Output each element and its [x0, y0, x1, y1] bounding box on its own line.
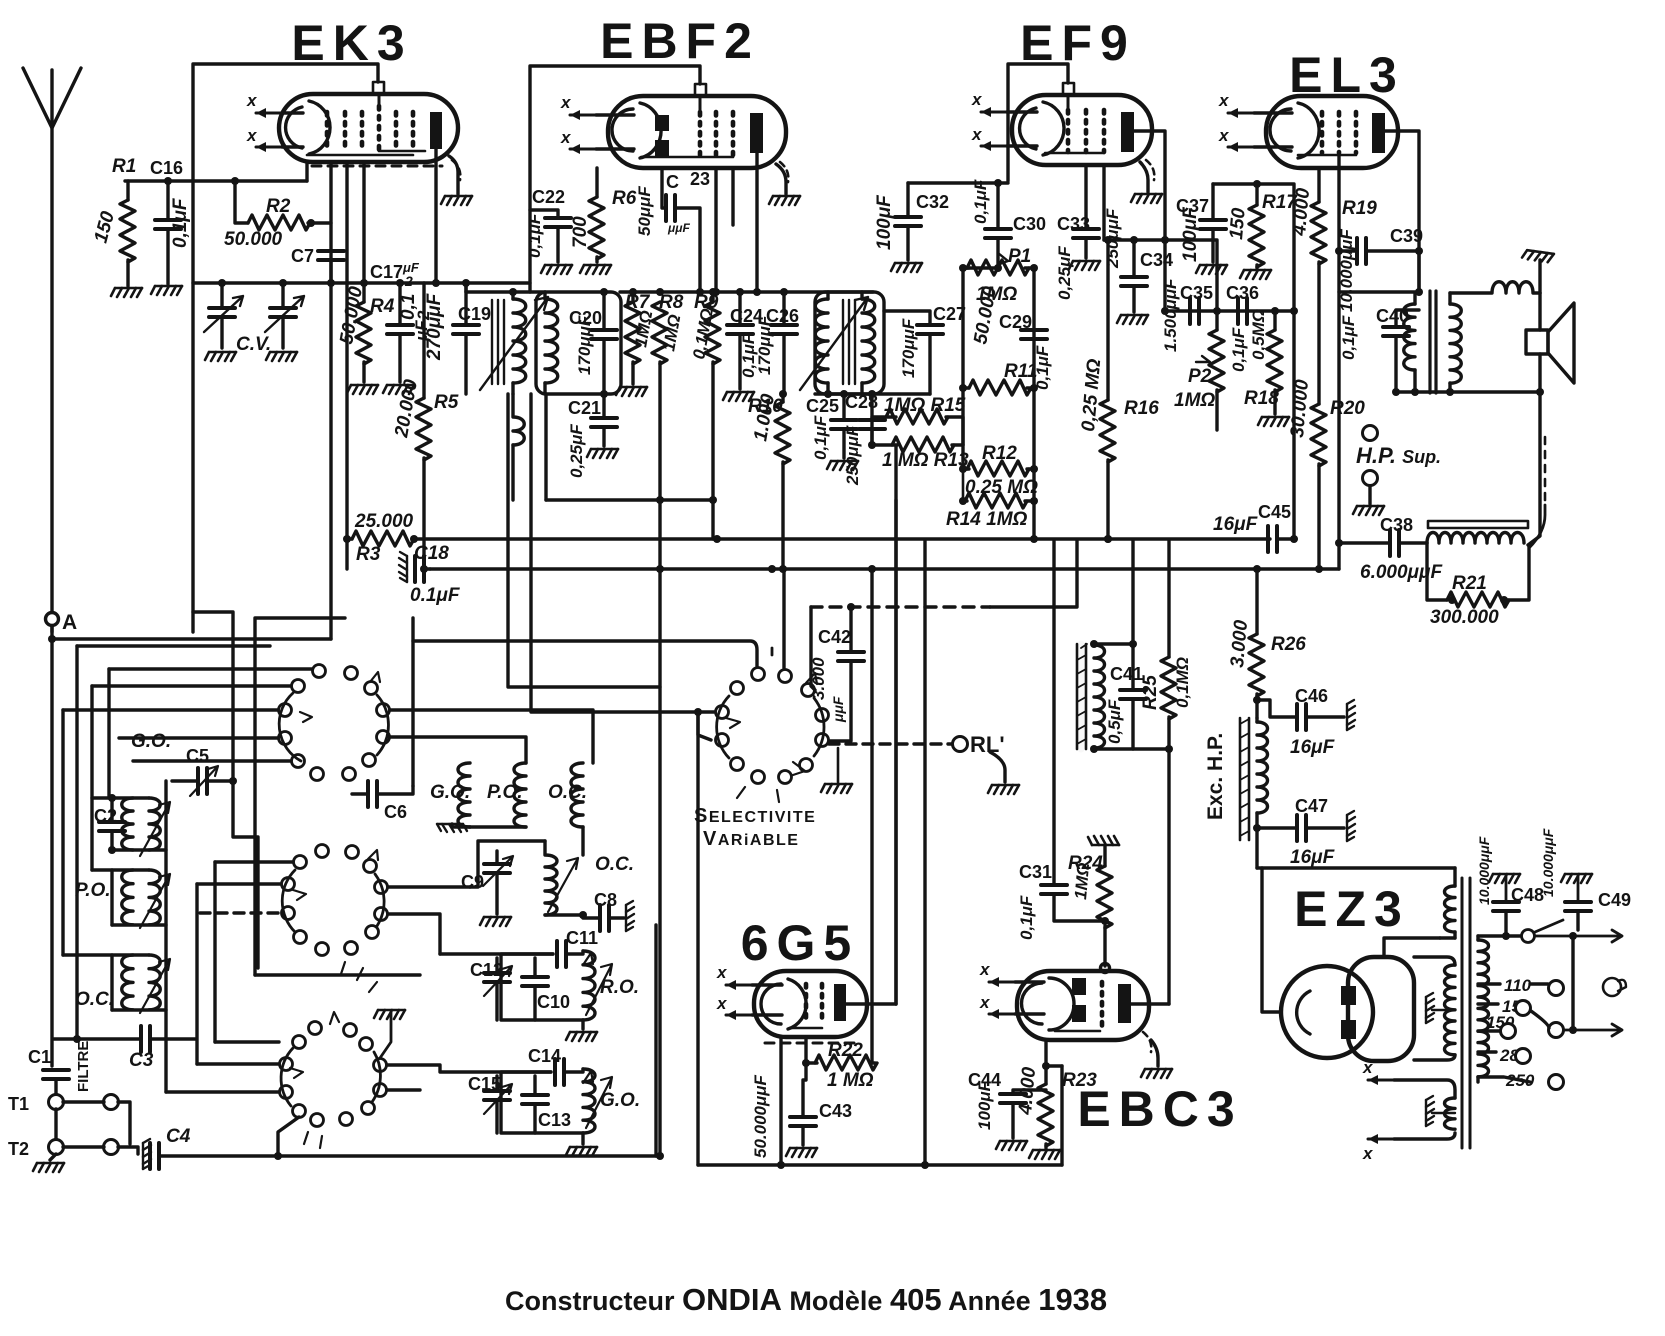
core lines	[492, 300, 504, 384]
wire grid bus y292	[620, 290, 873, 293]
osc coil below	[513, 394, 524, 445]
svg-text:x: x	[971, 90, 983, 109]
svg-text:C27: C27	[933, 304, 966, 324]
wire wafer1 right feeds	[390, 710, 593, 763]
wire HT bus 2	[430, 567, 1339, 570]
svg-text:O.C.: O.C.	[548, 782, 587, 803]
X arrows filament	[1368, 1075, 1394, 1085]
svg-text:C11: C11	[566, 928, 598, 948]
wire anode rail down	[1417, 251, 1420, 290]
svg-text:6.000μμF: 6.000μμF	[1360, 562, 1443, 583]
tuning arrow	[480, 297, 548, 390]
ground right of EK3	[449, 156, 458, 194]
svg-text:P2: P2	[1188, 366, 1212, 387]
HV winding top	[1445, 886, 1456, 932]
wire EZ3 anodes	[1384, 938, 1440, 957]
svg-text:25.000: 25.000	[354, 511, 414, 532]
svg-text:0,25μF: 0,25μF	[567, 424, 586, 478]
svg-text:R20: R20	[1330, 398, 1365, 419]
wire EF9 top cap	[1008, 64, 1068, 181]
wire rail x925	[923, 541, 926, 1165]
wire input line	[125, 179, 307, 182]
ground below EF9	[1140, 162, 1148, 192]
coil R.O.	[583, 951, 595, 1020]
svg-text:C32: C32	[916, 192, 949, 212]
svg-text:R.O.: R.O.	[600, 977, 639, 998]
anode rod	[430, 112, 442, 149]
svg-text:R2: R2	[266, 196, 291, 217]
svg-text:R14 1MΩ: R14 1MΩ	[946, 509, 1028, 530]
coil O.C. tuned	[545, 841, 557, 915]
filament winding bottom	[1445, 1098, 1456, 1129]
svg-text:C43: C43	[819, 1101, 852, 1121]
choke C41	[1078, 644, 1085, 749]
wire drop to selectivity	[782, 572, 785, 668]
svg-text:T2: T2	[8, 1139, 29, 1159]
svg-text:50.000μμF: 50.000μμF	[751, 1075, 770, 1158]
wire AVC y500	[546, 498, 713, 501]
wire wafer1 left feeds	[109, 667, 312, 670]
ground right of EBF2	[776, 164, 786, 194]
svg-text:x: x	[560, 93, 572, 112]
wire EL3 g2 drop	[1337, 153, 1340, 569]
wire EK3 box rail	[193, 612, 233, 781]
svg-text:G.O.: G.O.	[131, 731, 171, 752]
svg-text:C5: C5	[186, 746, 209, 766]
coil G.O.	[583, 1069, 595, 1133]
svg-text:P.O.: P.O.	[75, 880, 111, 901]
wire grid3 drop	[362, 162, 365, 283]
box	[501, 1072, 583, 1133]
svg-text:SELECTIVITE: SELECTIVITE	[694, 805, 816, 827]
svg-text:0,1μF: 0,1μF	[811, 415, 830, 460]
svg-text:x: x	[979, 993, 991, 1012]
svg-text:x: x	[246, 91, 258, 110]
wire 6G5 anode	[846, 1002, 896, 1005]
wire antenna down	[50, 626, 53, 1066]
svg-text:μμF: μμF	[830, 696, 846, 723]
wire EL3 anode to transformer	[1385, 131, 1419, 290]
wire EK3 top cap to left rail	[193, 64, 378, 632]
svg-text:Exc. H.P.: Exc. H.P.	[1204, 733, 1227, 820]
svg-text:C10: C10	[537, 992, 570, 1012]
wire grid2 drop	[345, 162, 348, 569]
svg-text:C21: C21	[568, 398, 601, 418]
svg-text:C4: C4	[166, 1126, 191, 1147]
svg-text:R1: R1	[112, 156, 136, 177]
core	[1462, 878, 1470, 1148]
capacitor 0,1uF (on C17 line)	[398, 283, 401, 325]
svg-text:C34: C34	[1140, 250, 1173, 270]
svg-text:C36: C36	[1226, 283, 1259, 303]
wire osc grid drop	[329, 260, 332, 639]
svg-text:170μμF: 170μμF	[755, 315, 774, 375]
ground right of EBC3	[1151, 1040, 1158, 1066]
svg-text:C1: C1	[28, 1047, 51, 1067]
svg-text:10.000μμF: 10.000μμF	[1540, 828, 1556, 897]
svg-text:10.000μμF: 10.000μμF	[1337, 229, 1356, 312]
svg-text:x: x	[1362, 1058, 1374, 1077]
shield dashes	[312, 165, 442, 168]
ground under selectivity	[828, 741, 830, 778]
svg-text:C25: C25	[806, 396, 839, 416]
svg-text:270μμF: 270μμF	[424, 292, 445, 361]
svg-text:0,1μF: 0,1μF	[525, 213, 544, 258]
svg-text:3.000: 3.000	[809, 657, 828, 700]
wire band switch to selectivity	[413, 641, 757, 666]
svg-text:1.500μμF: 1.500μμF	[1161, 278, 1180, 352]
wire EBF2 top cap left	[530, 66, 700, 292]
wire right box edge	[654, 925, 657, 1156]
wire speaker return	[1528, 392, 1540, 545]
svg-text:G.O.: G.O.	[600, 1090, 640, 1111]
capacitor 0,5uF	[1131, 541, 1134, 690]
svg-text:C38: C38	[1380, 515, 1413, 535]
svg-text:C17: C17	[370, 262, 403, 282]
svg-text:x: x	[1218, 126, 1230, 145]
switch mains	[1522, 930, 1535, 943]
svg-text:C19: C19	[458, 304, 491, 324]
svg-text:O.C.: O.C.	[595, 854, 634, 875]
wire grid1 drop	[329, 162, 332, 283]
wire filter line	[1257, 866, 1455, 869]
svg-text:C31: C31	[1019, 862, 1052, 882]
switch box outline	[255, 618, 345, 975]
wire EBF2 anode drop	[755, 153, 758, 292]
svg-text:R3: R3	[356, 544, 381, 565]
svg-text:RL': RL'	[970, 732, 1005, 757]
ground top right	[1538, 260, 1541, 293]
svg-text:O.C.: O.C.	[75, 989, 114, 1010]
wire wafer3 to bus	[278, 1117, 299, 1156]
svg-text:0,1μF: 0,1μF	[971, 179, 990, 224]
antenna	[23, 68, 81, 128]
wire 6G5 cathode	[779, 1037, 782, 1165]
svg-text:300.000: 300.000	[1430, 607, 1499, 628]
output transformer	[1404, 291, 1462, 393]
svg-text:C13: C13	[538, 1110, 571, 1130]
wire screen line EL3	[1213, 184, 1294, 539]
wire wafer3 left feeds	[215, 1040, 279, 1043]
svg-text:x: x	[716, 994, 728, 1013]
node A	[46, 613, 59, 626]
switch arm taps	[1531, 1011, 1549, 1028]
svg-text:R4: R4	[370, 296, 395, 317]
svg-text:H.P. Sup.: H.P. Sup.	[1356, 443, 1441, 468]
svg-text:C49: C49	[1598, 890, 1631, 910]
svg-text:x: x	[971, 125, 983, 144]
hum coil	[1450, 282, 1540, 293]
svg-text:4.000: 4.000	[1015, 1066, 1040, 1117]
svg-text:110: 110	[1504, 976, 1532, 995]
svg-text:700: 700	[570, 216, 591, 248]
svg-text:C42: C42	[818, 627, 851, 647]
primary coil	[1404, 304, 1415, 370]
wire wafer2 right feeds	[388, 885, 470, 888]
svg-text:50μμF: 50μμF	[635, 186, 654, 236]
ground above wafer3	[374, 1010, 405, 1019]
svg-text:16μF: 16μF	[1290, 847, 1336, 868]
terminal RL	[829, 742, 952, 745]
svg-text:C45: C45	[1258, 502, 1291, 522]
svg-text:23: 23	[690, 169, 710, 189]
svg-text:1 MΩ: 1 MΩ	[827, 1070, 874, 1091]
svg-text:100μF: 100μF	[1180, 206, 1201, 262]
diode plates	[655, 115, 669, 131]
box around secondary/C20	[536, 292, 621, 394]
tube EF9	[971, 83, 1154, 180]
svg-text:170μμF: 170μμF	[575, 315, 594, 375]
svg-text:0,1μF: 0,1μF	[1229, 327, 1248, 372]
wire screen line C17	[193, 281, 530, 284]
svg-text:1MΩ: 1MΩ	[1071, 862, 1093, 900]
svg-text:x: x	[716, 963, 728, 982]
svg-text:2: 2	[404, 273, 413, 289]
capacitor C49	[1561, 874, 1592, 883]
tube EBC3	[979, 960, 1151, 1052]
wafer 1 contacts	[279, 665, 390, 781]
selectivity contacts	[716, 648, 829, 802]
svg-text:0.1μF: 0.1μF	[410, 585, 461, 606]
svg-text:16μF: 16μF	[1213, 514, 1259, 535]
svg-text:C8: C8	[594, 890, 617, 910]
svg-text:R6: R6	[612, 188, 637, 209]
wire left rail	[77, 644, 270, 647]
terminal H.P. Sup.	[1363, 426, 1378, 441]
wire C41 top/bottom	[1094, 642, 1133, 645]
svg-text:100μF: 100μF	[975, 1080, 994, 1130]
secondary coil	[1450, 304, 1461, 383]
svg-text:Constructeur ONDIA Modèle 405: Constructeur ONDIA Modèle 405 Année 1938	[505, 1282, 1107, 1317]
svg-text:100μF: 100μF	[874, 194, 895, 250]
svg-text:0,5MΩ: 0,5MΩ	[1249, 309, 1268, 360]
svg-text:6G5: 6G5	[741, 915, 860, 971]
core	[1430, 291, 1436, 393]
terminal pair right	[104, 1095, 119, 1110]
primary winding right	[1478, 940, 1489, 1077]
svg-text:0,1μF: 0,1μF	[1017, 895, 1036, 940]
wire A to osc grid	[52, 637, 331, 640]
svg-text:C22: C22	[532, 187, 565, 207]
wire EF9 anode	[1134, 131, 1165, 311]
wire EBF2 grid drops	[714, 168, 717, 292]
plug symbol	[1603, 978, 1621, 996]
svg-text:250μμF: 250μμF	[843, 425, 862, 486]
wire anode drop EK3	[434, 149, 437, 283]
svg-text:R19: R19	[1342, 198, 1377, 219]
svg-text:50.000: 50.000	[224, 229, 283, 250]
svg-text:R26: R26	[1271, 634, 1306, 655]
svg-text:C18: C18	[414, 543, 449, 564]
svg-text:4.000: 4.000	[1289, 187, 1314, 238]
svg-text:EBF2: EBF2	[600, 13, 760, 69]
HV secondary winding	[1445, 965, 1456, 1055]
IF transformer 1 (EK3-EBF2)	[480, 292, 621, 500]
svg-text:FILTRE: FILTRE	[75, 1041, 92, 1092]
tube EL3	[1218, 91, 1398, 168]
wire EK3 anode into IF1	[466, 290, 545, 293]
speaker field coil	[1427, 521, 1528, 543]
secondary coil	[545, 299, 558, 383]
power transformer	[1394, 868, 1489, 1148]
svg-text:C47: C47	[1295, 796, 1328, 816]
variable capacitor C.V. a	[220, 283, 223, 308]
capacitor C48	[1489, 874, 1520, 883]
cathode arcs	[286, 107, 302, 148]
svg-text:C30: C30	[1013, 214, 1046, 234]
tube EBF2	[560, 84, 788, 182]
svg-text:R23: R23	[1062, 1070, 1097, 1091]
svg-text:EBC3: EBC3	[1077, 1081, 1242, 1137]
svg-text:C6: C6	[384, 802, 407, 822]
svg-text:R25: R25	[1140, 675, 1161, 710]
svg-text:3.000: 3.000	[1227, 619, 1252, 669]
svg-text:C9: C9	[461, 872, 484, 892]
choke Exc HP	[1240, 718, 1249, 840]
wire primary top	[1339, 290, 1415, 293]
x arrows	[256, 108, 282, 118]
svg-text:C: C	[666, 172, 679, 192]
svg-text:x: x	[560, 128, 572, 147]
variable capacitor C.V. b	[281, 283, 284, 308]
svg-text:C7: C7	[291, 246, 314, 266]
wafer 2 contacts	[282, 845, 388, 956]
svg-text:170μμF: 170μμF	[899, 318, 918, 378]
svg-text:10.000μμF: 10.000μμF	[1476, 836, 1492, 905]
wire C35 line	[1165, 309, 1294, 312]
svg-text:x: x	[1218, 91, 1230, 110]
wire wafer2 left feeds	[215, 860, 293, 863]
wire wafer3 right feeds	[387, 1065, 551, 1072]
svg-text:μμF: μμF	[667, 221, 690, 235]
wire transformer bottom	[1396, 390, 1540, 393]
wire selectivity feeds	[508, 394, 660, 687]
svg-text:R5: R5	[434, 392, 459, 413]
svg-text:0,5μF: 0,5μF	[1105, 699, 1124, 744]
svg-text:0,1μF: 0,1μF	[170, 197, 191, 248]
svg-text:1MΩ: 1MΩ	[1174, 390, 1215, 411]
svg-text:0,25μF: 0,25μF	[1055, 246, 1074, 300]
svg-text:150: 150	[1226, 207, 1250, 241]
top cap	[373, 82, 384, 93]
svg-text:0,1μF: 0,1μF	[1339, 315, 1358, 360]
box	[501, 954, 583, 1020]
svg-text:C39: C39	[1390, 226, 1423, 246]
svg-text:C35: C35	[1180, 283, 1213, 303]
svg-text:C.V.: C.V.	[236, 334, 271, 355]
svg-text:VARiABLE: VARiABLE	[703, 828, 799, 850]
wire HT bus 1	[412, 537, 1270, 540]
svg-text:x: x	[979, 960, 991, 979]
IF transformer 2 (EBF2-EF9)	[800, 292, 884, 394]
tube EK3	[246, 82, 460, 180]
svg-text:C16: C16	[150, 158, 183, 178]
wire EBC3 anode	[1131, 1002, 1169, 1005]
wafer 3 contacts	[280, 962, 387, 1148]
primary coil	[513, 299, 526, 383]
svg-text:R16: R16	[1124, 398, 1159, 419]
svg-text:C46: C46	[1295, 686, 1328, 706]
svg-text:C41: C41	[1110, 664, 1143, 684]
svg-text:EZ3: EZ3	[1294, 881, 1410, 937]
svg-text:A: A	[62, 611, 77, 634]
wire EZ3 cathode out	[1263, 868, 1281, 1012]
svg-text:x: x	[1362, 1144, 1374, 1163]
wire primary top	[1478, 934, 1520, 937]
speaker	[1526, 303, 1574, 383]
svg-text:x: x	[246, 126, 258, 145]
wire 6G5 box bottom	[698, 1163, 1062, 1166]
svg-text:T1: T1	[8, 1094, 29, 1114]
svg-text:0,1MΩ: 0,1MΩ	[1173, 657, 1192, 708]
wire cathode line	[908, 181, 1008, 184]
wire 6G5 grid drop	[696, 712, 699, 1165]
wire mains out 2	[1564, 1024, 1622, 1036]
tube 6G5	[716, 963, 867, 1043]
svg-text:16μF: 16μF	[1290, 737, 1336, 758]
grid columns (dotted)	[327, 106, 413, 151]
wire dashed AVC	[811, 605, 990, 608]
tube EZ3	[1281, 957, 1414, 1061]
